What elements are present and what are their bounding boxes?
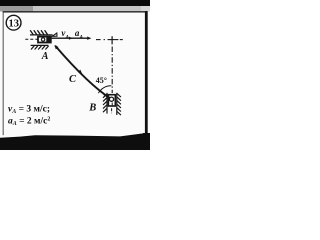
dash-dot inside block B xyxy=(111,103,113,107)
top guide: upper hatch ticks xyxy=(30,30,47,34)
velocity/acceleration arrow line xyxy=(51,37,88,39)
top guide: lower wall line xyxy=(31,44,49,46)
top guide: rail end triangle xyxy=(52,33,57,36)
B guide: left hatch ticks xyxy=(103,94,107,112)
dash-dot below block B xyxy=(111,108,113,113)
svg-text:C: C xyxy=(69,74,77,85)
horizontal dash-dot axis xyxy=(96,39,123,41)
pin circle at B xyxy=(109,97,113,101)
B guide: right rail xyxy=(116,93,118,115)
bottom-right black corner xyxy=(143,133,150,150)
slider block B xyxy=(108,95,115,106)
arrowhead vA xyxy=(69,37,73,40)
rod end arrowhead near A xyxy=(54,45,58,49)
gray band lighter right segment xyxy=(141,6,150,11)
problem number circle 13 xyxy=(6,15,21,30)
rod overlap blob in block A xyxy=(46,37,51,42)
top guide: upper rail xyxy=(30,34,53,36)
right black band xyxy=(145,11,148,135)
45 degree arc xyxy=(98,86,111,93)
top guide: lower hatch ticks xyxy=(31,46,49,50)
vertical dash-dot axis xyxy=(111,47,113,94)
svg-text:45°: 45° xyxy=(96,76,107,85)
svg-text:A: A xyxy=(41,51,49,62)
cross vertical bar xyxy=(111,36,113,44)
svg-text:A: A xyxy=(78,34,83,40)
svg-text:13: 13 xyxy=(8,19,19,30)
rod C xyxy=(55,46,111,99)
slider block A xyxy=(38,37,51,43)
top black band xyxy=(0,0,150,6)
gray band darker left segment xyxy=(0,6,33,11)
point C marker on rod xyxy=(78,70,82,74)
pin circle at A xyxy=(41,38,44,41)
gray separator band xyxy=(0,6,150,11)
B guide: left rail xyxy=(106,93,108,114)
page background xyxy=(0,0,150,150)
dashed centerline left of slider A xyxy=(25,38,37,40)
cell left border xyxy=(2,11,5,135)
svg-text:B: B xyxy=(88,103,96,114)
rod end into pin B xyxy=(104,94,112,99)
B guide: right hatch ticks xyxy=(117,94,121,116)
arrowhead aA xyxy=(87,37,91,40)
bottom black band xyxy=(0,133,150,150)
svg-text:A: A xyxy=(64,34,69,40)
cell top border xyxy=(3,11,146,12)
